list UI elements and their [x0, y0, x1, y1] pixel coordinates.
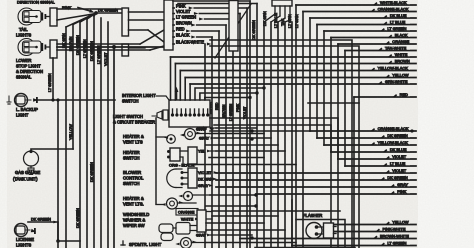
- svg-text:TAN: TAN: [281, 18, 285, 26]
- middle vertical color labels (rotated): [201, 101, 247, 121]
- label ORANGE boxed: [176, 209, 212, 216]
- label GRAY v2: [198, 184, 213, 188]
- connector R3: [122, 8, 129, 36]
- connector R1 (tail light): [50, 8, 57, 26]
- light switch pins: [171, 109, 209, 117]
- svg-text:FLASHER: FLASHER: [303, 213, 322, 218]
- svg-text:LIGHT SWITCH: LIGHT SWITCH: [113, 114, 143, 119]
- svg-text:VIOLET: VIOLET: [392, 168, 406, 173]
- wire LT GREEN from C1: [173, 15, 233, 21]
- wire lamp left to vertical: [156, 204, 163, 206]
- label WINDSHIELD WASHER & WIPER SW: [123, 212, 149, 228]
- heater & vent lamps: [164, 129, 210, 144]
- feed wire verticals going down: [264, 22, 292, 248]
- svg-text:YELLOW: YELLOW: [69, 124, 73, 140]
- wire R4 stub: [129, 47, 146, 49]
- label INTERIOR LIGHT SWITCH: [122, 93, 156, 104]
- svg-text:& DIRECTION: & DIRECTION: [16, 69, 43, 74]
- middle vertical from top edge a: [249, 1, 251, 248]
- connector R2 (stop light): [50, 40, 57, 58]
- wire R1 to R3: [57, 8, 122, 10]
- wires fan-out from junction: [66, 13, 96, 27]
- svg-text:BROWN: BROWN: [176, 21, 192, 26]
- wire VIOLET (lower right): [338, 154, 416, 160]
- label GRN at switch: [196, 128, 214, 132]
- svg-text:WINDSHIELD: WINDSHIELD: [123, 212, 149, 217]
- wire ORANGE-BLACK (upper right): [303, 6, 416, 12]
- wire PINK (long horizontal): [256, 189, 416, 195]
- node backup junction: [51, 98, 54, 101]
- label GRAY lamp mid: [199, 137, 214, 141]
- wire R2 cross up: [57, 30, 164, 44]
- wire LT GREEN (upper right): [324, 26, 416, 32]
- svg-text:DK GREEN: DK GREEN: [252, 20, 256, 40]
- svg-text:BROWN: BROWN: [395, 58, 410, 63]
- wire R3 to C1 b: [129, 19, 165, 21]
- svg-text:SPDMTR. LIGHT: SPDMTR. LIGHT: [129, 242, 162, 247]
- svg-text:HEATER: HEATER: [123, 150, 140, 155]
- circuit breaker connector: [152, 110, 168, 120]
- middle vertical wires from C1 corners: [205, 8, 247, 248]
- wire YELLOW (bottom right): [334, 219, 416, 225]
- node fan junction: [94, 11, 98, 15]
- wire BROWN from C1: [173, 21, 226, 27]
- C2 wire labels (rotated): [263, 11, 299, 28]
- svg-text:ORANGE: ORANGE: [178, 211, 195, 215]
- wire crosser y40: [210, 40, 352, 248]
- wire WHITE-BLACK (upper right): [296, 0, 416, 5]
- wire DK BLUE (upper right): [310, 13, 416, 19]
- wire lt green corner up: [291, 200, 293, 246]
- svg-text:DK GREEN: DK GREEN: [76, 208, 80, 228]
- svg-text:YELLOW: YELLOW: [392, 219, 409, 224]
- wire BROWN-WHITE (bottom right): [240, 233, 416, 239]
- label LIGHT SWITCH & CIRCUIT BREAKER: [113, 114, 155, 125]
- svg-text:VIOLET: VIOLET: [198, 171, 212, 175]
- svg-text:BLACK-WHITE: BLACK-WHITE: [176, 40, 204, 45]
- svg-text:WHITE-BLACK: WHITE-BLACK: [380, 0, 407, 5]
- label HEATER & VENT LTS: [123, 134, 144, 145]
- wire bus y125: [214, 125, 331, 248]
- wire stop light down (LT GREEN): [52, 58, 54, 100]
- svg-text:SWITCH: SWITCH: [123, 181, 140, 186]
- ground at backup light: [7, 96, 11, 104]
- svg-text:BLOWER: BLOWER: [123, 170, 141, 175]
- wire gas gauge: [31, 149, 73, 151]
- svg-text:DK BLUE: DK BLUE: [390, 13, 407, 18]
- svg-text:PINK: PINK: [236, 103, 240, 112]
- svg-text:LT BLUE: LT BLUE: [390, 161, 406, 166]
- heater & vent lamps lower: [161, 192, 210, 210]
- svg-text:GRAY: GRAY: [199, 137, 210, 141]
- component output wires (horizontal runs): [196, 128, 340, 243]
- wire ORANGE (upper right): [338, 39, 416, 45]
- bundle wire color labels (rotated): [62, 33, 108, 66]
- light switch body: [169, 100, 210, 127]
- label LT GREEN rotated: [48, 73, 52, 92]
- svg-text:VIOLET: VIOLET: [176, 9, 191, 14]
- svg-text:DK GRN: DK GRN: [198, 178, 213, 182]
- svg-text:RED: RED: [215, 102, 219, 110]
- node license junction: [56, 239, 60, 243]
- label YEL: [198, 150, 216, 154]
- label ORG-BLACK: [169, 163, 196, 168]
- svg-text:LT GREEN: LT GREEN: [97, 45, 101, 64]
- middle vertical from top edge b: [256, 4, 258, 248]
- svg-text:VENT LTS: VENT LTS: [123, 140, 143, 145]
- svg-text:WHITE: WHITE: [395, 52, 408, 57]
- tail light lamp assembly: [18, 8, 50, 25]
- wire ORANGE-BLACK (lower right): [310, 126, 416, 132]
- svg-text:LT GRN: LT GRN: [288, 14, 292, 28]
- label L. BACKUP LIGHT: [16, 107, 38, 118]
- svg-text:PINK-WHITE: PINK-WHITE: [383, 226, 406, 231]
- svg-text:BROWN-WHITE: BROWN-WHITE: [380, 233, 409, 238]
- wire R3 to C1 c: [129, 30, 165, 42]
- wire PINK from C1: [173, 4, 247, 10]
- wire BROWN (upper right): [175, 58, 416, 64]
- wire bus y118: [210, 118, 338, 248]
- svg-text:LIGHTS: LIGHTS: [16, 33, 31, 38]
- wire RED (upper right): [354, 92, 416, 98]
- svg-text:SIGNAL: SIGNAL: [16, 75, 32, 80]
- wire license dk green: [28, 222, 58, 241]
- svg-text:LIGHT: LIGHT: [16, 113, 29, 118]
- svg-text:YELLOW: YELLOW: [392, 72, 409, 77]
- wire YELLOW-BLACK (upper right): [180, 65, 416, 71]
- label WHITE: [181, 218, 212, 222]
- connector V2: [188, 168, 197, 188]
- svg-text:PINK: PINK: [397, 189, 406, 194]
- wire PINK-WHITE (bottom right): [334, 226, 416, 232]
- wire BLACK (upper right): [331, 32, 416, 38]
- svg-text:DK BLUE: DK BLUE: [390, 147, 407, 152]
- label BLOWER CONTROL SWITCH: [123, 170, 144, 186]
- wire bus y103: [308, 102, 359, 104]
- svg-text:SWITCH: SWITCH: [122, 99, 139, 104]
- label SPDMTR LIGHT: [121, 241, 162, 247]
- svg-text:LT GRN: LT GRN: [295, 14, 299, 28]
- wire DK BLUE (lower right): [331, 147, 416, 153]
- wire YELLOW-BLACK (lower right): [324, 140, 416, 146]
- svg-text:GRAY: GRAY: [197, 127, 208, 131]
- L backup light lamp: [15, 94, 39, 107]
- svg-text:L. BACKUP: L. BACKUP: [16, 107, 38, 112]
- svg-text:GRAY: GRAY: [196, 234, 207, 238]
- svg-text:BLACK: BLACK: [395, 32, 408, 37]
- wire diagonal top middle: [215, 4, 251, 58]
- wire C1 top edge a: [173, 0, 250, 2]
- wire GRAY (long horizontal): [216, 182, 416, 188]
- wire vertical x115: [113, 47, 115, 248]
- label DK GREEN rotated mid: [252, 20, 256, 40]
- wire BLACK-WHITE from C1: [173, 40, 212, 46]
- svg-text:DIRECTION SIGNAL: DIRECTION SIGNAL: [17, 0, 56, 5]
- wire VIOLET from C1: [173, 9, 240, 15]
- leader interior light switch: [156, 96, 169, 100]
- svg-text:DK GREEN: DK GREEN: [76, 35, 80, 55]
- svg-text:HEATER &: HEATER &: [123, 196, 144, 201]
- wire dk-green horizontal to connector R3: [96, 12, 122, 14]
- label LOWER STOP LIGHT & DIRECTION SIGNAL: [16, 58, 43, 80]
- svg-text:DK GREEN: DK GREEN: [90, 162, 94, 182]
- wire above flasher: [296, 220, 345, 248]
- svg-text:GAS GAUGE: GAS GAUGE: [15, 170, 40, 175]
- svg-text:BROWN: BROWN: [222, 104, 226, 118]
- svg-text:HEATER &: HEATER &: [123, 134, 144, 139]
- label HEATER & VENT LTS lower: [123, 196, 144, 207]
- label DK GREEN top: [98, 9, 118, 13]
- wire LT BLUE (upper right): [317, 19, 416, 25]
- windshield wiper switch symbols: [159, 223, 206, 241]
- lower stop light lamp assembly: [18, 39, 50, 56]
- connector C1 (body harness): [164, 0, 173, 50]
- blower control switch symbol: [167, 169, 188, 188]
- light switch feed wires (nested corners): [171, 57, 266, 100]
- svg-text:SWITCH: SWITCH: [123, 156, 140, 161]
- label PINK: [62, 5, 72, 10]
- wire BLACK from C1: [173, 33, 212, 39]
- connector V1: [188, 147, 197, 164]
- wire DK GREEN (lower right): [216, 175, 416, 181]
- svg-text:TAIL: TAIL: [19, 27, 28, 32]
- svg-text:VIOLET: VIOLET: [243, 106, 247, 119]
- heater switch symbol: [167, 148, 188, 165]
- label GRAY lamp top: [197, 127, 216, 131]
- svg-text:WASHER &: WASHER &: [123, 218, 145, 223]
- wire R2 y47 bus: [57, 45, 164, 49]
- wire crosser y46: [210, 46, 359, 248]
- svg-text:GRAY: GRAY: [198, 184, 209, 188]
- license lights lamp: [15, 224, 37, 237]
- label VIOLET: [198, 171, 217, 175]
- speedometer light lamp: [175, 238, 206, 248]
- arrow up at light switch: [175, 87, 179, 99]
- junction dots middle: [250, 129, 413, 239]
- wire license junction to bundle: [58, 241, 80, 248]
- right staircase verticals: [296, 5, 354, 248]
- svg-text:LOWER: LOWER: [16, 58, 31, 63]
- label GRAY wiper: [196, 234, 220, 238]
- svg-text:CONTROL: CONTROL: [123, 176, 144, 181]
- svg-text:VIOLET: VIOLET: [104, 52, 108, 66]
- wire TAN-WHITE (upper right): [345, 45, 416, 51]
- svg-text:GRN-WHITE: GRN-WHITE: [385, 79, 408, 84]
- svg-text:DK GREEN: DK GREEN: [31, 218, 51, 222]
- connector V3: [197, 210, 206, 232]
- svg-text:LT GREEN: LT GREEN: [387, 26, 406, 31]
- svg-text:LT BLUE: LT BLUE: [274, 12, 278, 28]
- svg-text:DK GREEN: DK GREEN: [387, 133, 408, 138]
- svg-text:ORANGE-BLACK: ORANGE-BLACK: [378, 126, 409, 131]
- wire backup light horizontal: [38, 99, 115, 101]
- gas gauge (tank unit) symbol: [24, 150, 39, 175]
- flasher unit: [306, 223, 336, 239]
- label HEATER SWITCH: [123, 150, 140, 161]
- label DK GREEN license: [31, 218, 58, 224]
- svg-text:VIOLET: VIOLET: [392, 154, 406, 159]
- svg-text:BLACK: BLACK: [176, 33, 190, 38]
- label TAIL LIGHTS: [16, 27, 31, 38]
- wire YELLOW (upper right): [185, 72, 416, 78]
- svg-text:ORANGE-BLACK: ORANGE-BLACK: [378, 6, 409, 11]
- svg-text:STOP LIGHT: STOP LIGHT: [16, 64, 41, 69]
- svg-text:YELLOW-BLACK: YELLOW-BLACK: [378, 65, 409, 70]
- wires from C2 fan down: [264, 6, 290, 22]
- svg-text:ORG - BLACK: ORG - BLACK: [169, 163, 194, 168]
- wire R2 to C1 low: [57, 46, 164, 50]
- svg-text:RED: RED: [400, 92, 408, 97]
- svg-text:DK GRN: DK GRN: [263, 11, 267, 26]
- wire C1 top edge b: [178, 3, 257, 5]
- wire LT BLUE (lower right): [345, 161, 416, 167]
- svg-text:RED: RED: [176, 27, 185, 32]
- svg-text:DK GRN: DK GRN: [62, 33, 66, 48]
- svg-text:LT GREEN: LT GREEN: [83, 39, 87, 58]
- label DIRECTION SIGNAL (clipped top): [17, 0, 56, 5]
- wire heater lamps left: [156, 118, 166, 204]
- wire R1 diagonal to fan: [57, 14, 96, 21]
- wire R3 to C1 a: [129, 11, 165, 13]
- svg-text:LT GREEN: LT GREEN: [48, 73, 52, 92]
- svg-text:YELLOW-BLACK: YELLOW-BLACK: [378, 140, 409, 145]
- svg-text:YEL: YEL: [198, 150, 205, 154]
- wire RED from C1: [173, 27, 219, 33]
- svg-text:LT BLUE: LT BLUE: [390, 19, 406, 24]
- label DK GRN: [198, 178, 217, 182]
- label GAS GAUGE (TANK UNIT): [13, 170, 40, 182]
- svg-text:LT GREEN: LT GREEN: [176, 15, 196, 20]
- wire VIOLET (lower right): [216, 168, 416, 174]
- svg-text:(TANK UNIT): (TANK UNIT): [13, 177, 38, 182]
- svg-text:ORANGE: ORANGE: [392, 39, 409, 44]
- wire dk green down to license: [56, 98, 59, 241]
- svg-text:DK GREEN: DK GREEN: [387, 175, 408, 180]
- svg-text:LICENSE: LICENSE: [16, 237, 34, 242]
- wire WHITE (upper right): [171, 52, 417, 58]
- svg-text:WHITE: WHITE: [181, 218, 194, 222]
- svg-text:LT GREEN: LT GREEN: [387, 240, 406, 245]
- connector C2 (top edge): [272, 0, 292, 6]
- bundle wire labels lower (rotated): [69, 124, 94, 228]
- label FLASHER: [303, 213, 322, 218]
- svg-text:GRAY: GRAY: [397, 182, 408, 187]
- left vertical wire bundle: [66, 16, 108, 248]
- connector R4: [122, 44, 129, 56]
- label LICENSE LIGHTS: [16, 237, 34, 248]
- wire LT GREEN (bottom right): [292, 240, 416, 246]
- svg-text:TAN-WHITE: TAN-WHITE: [385, 45, 407, 50]
- svg-text:VENT LTS.: VENT LTS.: [123, 202, 144, 207]
- wire GRN-WHITE (upper right): [190, 79, 416, 85]
- svg-text:INTERIOR LIGHT: INTERIOR LIGHT: [122, 93, 156, 98]
- svg-text:WIPER SW: WIPER SW: [123, 223, 145, 228]
- svg-text:LIGHTS: LIGHTS: [16, 243, 31, 248]
- wire bottom nested: [255, 247, 355, 248]
- svg-text:& CIRCUIT BREAKER: & CIRCUIT BREAKER: [113, 120, 155, 125]
- connector B (instrument panel): [229, 1, 238, 52]
- wire pink to fan junction: [78, 8, 95, 15]
- wire DK GREEN (lower right): [317, 133, 416, 139]
